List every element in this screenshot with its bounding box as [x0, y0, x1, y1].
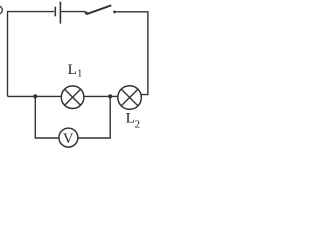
lamp L1 circle [61, 86, 84, 109]
node junction dot right [108, 94, 112, 98]
voltmeter V circle [59, 128, 78, 147]
ammeter A1 (cropped at left image edge) [0, 6, 2, 14]
wire top-left: battery to top-left corner [8, 11, 55, 13]
battery B1 positive plate (long) [59, 2, 61, 24]
switch S1 pivot contact [85, 11, 88, 14]
switch S1 blade (open) [86, 5, 111, 14]
wire switch to top-right corner and down to lamp L2 [114, 12, 148, 95]
battery B1 negative plate (short) [54, 7, 56, 17]
wire battery to switch [61, 11, 85, 13]
wire voltmeter branch right: bottom and up to junction [78, 96, 110, 138]
lamp L1 cross [65, 89, 81, 105]
wire voltmeter branch left: junction down and along bottom [35, 96, 59, 138]
svg-text:1: 1 [77, 69, 82, 80]
node junction dot left [33, 94, 37, 98]
lamp L2 cross [121, 89, 138, 106]
svg-text:L: L [126, 111, 135, 127]
wire middle: left vertical to lamp L1 [8, 95, 62, 97]
lamp L2 circle [118, 86, 142, 110]
wire left vertical [7, 11, 9, 97]
svg-text:V: V [63, 131, 74, 147]
wire lamp L1 to lamp L2 [84, 95, 118, 97]
svg-text:L: L [68, 62, 77, 78]
switch S1 right contact [113, 11, 116, 14]
svg-text:2: 2 [135, 118, 141, 130]
